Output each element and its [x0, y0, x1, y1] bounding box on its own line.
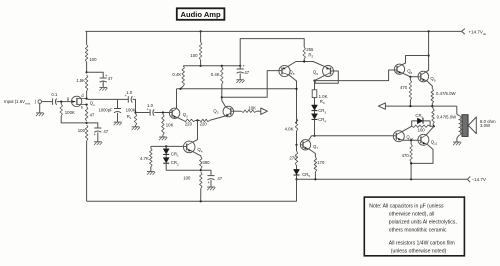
wire 4.7K lead — [150, 146, 152, 171]
speaker voice coil — [459, 116, 461, 136]
svg-text:10K: 10K — [166, 122, 174, 127]
junction rail 470b — [410, 178, 412, 180]
wire R1 to ground — [135, 126, 137, 127]
svg-text:47: 47 — [244, 70, 249, 75]
wire Q7 emitter — [309, 149, 316, 157]
ground R1 — [132, 126, 140, 128]
wire CR2 to emitter node — [166, 163, 201, 170]
svg-text:0.4K: 0.4K — [211, 72, 220, 77]
wire 0.4K left bottom join — [181, 86, 184, 89]
transistor Q6 — [323, 66, 334, 77]
junction Q7 base — [295, 144, 297, 146]
svg-text:390: 390 — [202, 160, 210, 165]
resistor 4.0K — [295, 119, 298, 132]
wire line D to Q10 base — [312, 135, 394, 137]
junction Q8 feed — [428, 54, 430, 56]
wire left branch from rail — [86, 31, 87, 44]
svg-text:1000pF: 1000pF — [99, 107, 113, 112]
svg-text:otherwise noted), all: otherwise noted), all — [389, 212, 435, 218]
diode CR3 — [312, 105, 318, 110]
wire 220b to Q3 emitter — [210, 116, 225, 120]
ground cap47a — [99, 86, 107, 88]
svg-text:170: 170 — [317, 160, 325, 165]
resistor 0.4K right — [221, 67, 224, 84]
ground 4.7K — [147, 171, 155, 173]
wire -14.7V rail — [297, 178, 468, 180]
wire Q6 base loop — [315, 71, 338, 83]
capacitor 0.1 — [52, 98, 54, 104]
wire 0.4K right to corner — [221, 84, 223, 101]
resistor 100 (mid feed) — [199, 42, 202, 60]
resistor R2 255 — [303, 47, 306, 59]
wire line A (Q2 col to Q5 col) — [177, 88, 297, 90]
wire mid rail y=65.8 — [183, 65, 240, 67]
off-page arrow (feedback in) — [261, 108, 268, 114]
junction output 470a — [409, 105, 411, 107]
wire CR5 to rail — [296, 175, 298, 179]
wire 4.0K to Q7 base — [296, 131, 298, 145]
capacitor 1.0a (coupling) — [127, 96, 129, 102]
wire box to Q10 collector — [402, 126, 412, 131]
resistor 100 (source, lower) — [85, 125, 88, 141]
wire R1 node to cap 1.0b — [136, 112, 150, 114]
junction Q4 emitter node — [200, 169, 202, 171]
junction rail CR5 — [295, 178, 297, 180]
diode CR5 — [294, 169, 300, 174]
svg-text:47: 47 — [108, 76, 113, 81]
svg-text:47: 47 — [90, 112, 95, 117]
wire node to cap 47a — [87, 72, 104, 77]
transistor Q11 — [418, 134, 429, 145]
junction line A right end — [295, 88, 297, 90]
transistor Q7 — [300, 140, 310, 150]
svg-text:220: 220 — [200, 121, 208, 126]
diode CR1 — [163, 149, 169, 154]
svg-text:0.47/5.0W: 0.47/5.0W — [436, 91, 457, 96]
wire Q9 emitter — [427, 81, 432, 89]
wire 100 mid bottom — [200, 60, 202, 66]
wire R2 feed — [240, 39, 304, 66]
wire Q4 emitter — [193, 152, 201, 157]
wire speaker feed — [457, 106, 459, 116]
svg-text:10K: 10K — [248, 105, 256, 110]
junction Q5Q6 emitters — [303, 60, 305, 62]
svg-text:100K: 100K — [65, 110, 75, 115]
wire tail down to Q4 collector — [192, 120, 197, 142]
junction line A left — [179, 88, 181, 90]
connector -14.7V — [467, 177, 470, 183]
wire bottom return run — [87, 179, 297, 201]
resistor 10K (Q2 base) — [162, 114, 165, 135]
resistor 100 (CR6 parallel) — [412, 125, 430, 127]
speaker frame — [462, 115, 468, 137]
ground cap47c — [207, 186, 215, 188]
junction Q10e Q11b — [410, 139, 412, 141]
transistor Q1 (JFET) — [71, 96, 81, 106]
transistor Q2 — [169, 108, 179, 118]
wire 10K to arrow — [257, 110, 261, 112]
wire Q7 collector join — [308, 136, 311, 141]
svg-text:(unless otherwise noted): (unless otherwise noted) — [391, 249, 447, 255]
capacitor 47 (2nd stage decouple) — [237, 68, 244, 70]
wire CR6 box right — [430, 121, 434, 126]
transistor Q8 — [394, 64, 404, 74]
svg-text:270: 270 — [289, 155, 297, 160]
wire CR4 to line D — [314, 119, 316, 135]
resistor 390 — [200, 157, 203, 169]
wire +14.7V top rail — [86, 30, 462, 32]
wire 1000pF to ground — [117, 113, 119, 122]
wire 100 to bottom run — [200, 189, 202, 202]
junction top rail / Q9 branch — [428, 30, 430, 32]
wire 170 to rail — [314, 172, 316, 179]
wire cap47b to ground — [97, 132, 99, 141]
junction mid rail / cap47 — [239, 65, 241, 67]
wire Q6 collector join — [315, 76, 325, 81]
diode CR4 — [312, 114, 318, 119]
wire Q5 collector down — [289, 75, 297, 124]
resistor 4.7K — [150, 148, 153, 167]
svg-text:s: s — [81, 105, 83, 110]
junction line B corner — [221, 96, 223, 98]
wire 0.47 upper to output — [431, 104, 433, 107]
svg-text:1.0: 1.0 — [147, 103, 154, 108]
wire Q2 emitter to 220a — [178, 118, 184, 121]
wire 390 to node — [200, 169, 202, 170]
svg-text:47: 47 — [103, 129, 108, 134]
resistor 100 (top-left) — [85, 45, 88, 63]
wire CR3 to CR4 — [314, 111, 316, 114]
wire Q11 collector — [426, 126, 434, 135]
wire 470b leads — [410, 140, 412, 179]
resistor 470 (Q11 base) — [410, 144, 413, 162]
junction CR6 node — [433, 125, 435, 127]
junction gate / 100K — [60, 101, 62, 103]
wire output line — [385, 105, 456, 107]
wire Q10 emitter to Q11 base — [403, 139, 418, 141]
junction emitters — [196, 119, 198, 121]
wire cap 0.1 to Q1 gate — [57, 101, 72, 103]
svg-text:0.1: 0.1 — [51, 92, 58, 97]
capacitor 47a (drain decouple) — [100, 77, 107, 79]
svg-text:100K: 100K — [126, 108, 136, 113]
svg-text:1.5K: 1.5K — [76, 78, 85, 83]
resistor 100 (Q4 leg) — [200, 172, 203, 189]
wire Q2 collector up — [176, 89, 178, 109]
resistor 1.5K — [85, 75, 88, 91]
wire line B to Q5 base — [222, 71, 279, 98]
off-page arrow (output) — [378, 103, 385, 109]
resistor 100K (gate) — [60, 104, 63, 116]
svg-text:100: 100 — [190, 53, 198, 58]
junction Q4 base / CR1 — [165, 145, 167, 147]
wire Q1 drain output run — [87, 98, 128, 101]
junction Q8e Q9b — [409, 76, 411, 78]
svg-text:470: 470 — [402, 153, 410, 158]
svg-text:255: 255 — [306, 47, 314, 52]
capacitor 1.0b (coupling) — [149, 109, 151, 115]
wire 470a to output line — [409, 77, 411, 106]
wire node to cap 47b — [87, 123, 98, 128]
junction source node — [86, 122, 88, 124]
diode CR6 — [417, 118, 422, 124]
wire Q3 base to 10K — [234, 110, 242, 112]
resistor 10K (feedback) — [241, 110, 256, 113]
wire drive line C — [315, 70, 395, 81]
wire 100K to source node — [61, 116, 86, 123]
wire source branch down to bottom run — [86, 141, 88, 201]
wire 100 mid top — [200, 31, 202, 42]
svg-text:100: 100 — [418, 128, 426, 133]
svg-text:47: 47 — [217, 176, 222, 181]
note box — [364, 197, 464, 256]
svg-text:0.4K: 0.4K — [172, 72, 181, 77]
wire cap1.0a to R1 node — [133, 99, 136, 112]
wire Q9 collector branch — [426, 31, 429, 72]
wire cap1.0b to Q2 base — [154, 112, 169, 114]
wire Q7 base bias down — [296, 145, 298, 151]
capacitor 47b (source bypass) — [94, 127, 101, 129]
wire cap47 to ground — [239, 73, 241, 79]
wire 1.5K to Q1 drain — [86, 91, 88, 99]
input terminal circle — [38, 100, 42, 104]
wire Q8 emitter to Q9 base — [403, 73, 418, 77]
resistor 0.47/5.0W lower — [432, 109, 435, 125]
title box "Audio Amp" — [177, 8, 225, 19]
junction drain decouple node — [86, 71, 88, 73]
resistor R1 100K — [134, 114, 137, 126]
wire Q4 base line — [151, 145, 184, 147]
junction mid rail / 0.4K right — [221, 65, 223, 67]
wire cap47 top feed — [239, 66, 241, 69]
ground cap47b — [94, 141, 102, 143]
resistor 220b — [200, 119, 210, 122]
wire R3 to CR3 — [314, 98, 316, 105]
wire 10K to ground — [162, 135, 164, 137]
junction bottom run Q4 leg — [200, 200, 202, 202]
svg-text:others monolithic ceramic: others monolithic ceramic — [389, 228, 447, 234]
transistor Q3 — [223, 106, 234, 117]
resistor 220a — [183, 119, 195, 122]
wire cap47a to ground — [102, 81, 104, 87]
svg-text:0.47/5.0W: 0.47/5.0W — [437, 115, 458, 120]
svg-text:1.0: 1.0 — [126, 90, 133, 95]
svg-text:4.7K: 4.7K — [140, 156, 149, 161]
svg-text:Note: All capacitors in µF (un: Note: All capacitors in µF (unless — [369, 204, 444, 210]
wire emitter trapezoid — [287, 62, 325, 67]
junction top rail / 100 mid — [200, 30, 202, 32]
wire base to CR1 — [165, 146, 167, 148]
ground speaker — [453, 141, 461, 143]
transistor Q10 — [393, 131, 404, 142]
transistor Q9 — [418, 71, 429, 82]
wire CR6 top line — [412, 121, 430, 126]
wire cap47c to ground — [210, 180, 212, 187]
capacitor 1000pF — [114, 108, 121, 110]
wire Q3 collector join — [222, 101, 226, 107]
junction Q2 base node — [162, 111, 164, 113]
speaker cone — [468, 117, 476, 134]
junction emitter loop — [410, 162, 412, 164]
junction R1 node — [134, 111, 136, 113]
svg-text:4.0K: 4.0K — [285, 127, 294, 132]
wire 270 to CR5 — [296, 166, 298, 170]
resistor 47 (source) — [85, 107, 88, 122]
svg-text:470: 470 — [400, 85, 408, 90]
junction line D — [313, 135, 315, 137]
wire input ground stub — [39, 103, 41, 112]
junction output 0.47 — [431, 105, 433, 107]
diode CR2 — [163, 158, 169, 163]
resistor 270 — [295, 151, 298, 166]
wire 1000pF tap — [117, 99, 119, 108]
svg-text:polarized units Al electrolyti: polarized units Al electrolytics, — [389, 220, 457, 226]
svg-text:100: 100 — [78, 128, 86, 133]
wire 220a to 220b — [196, 119, 200, 121]
ground 10K (Q2 base) — [159, 136, 167, 138]
resistor R3 1.0K (boxed) — [312, 90, 317, 98]
svg-text:3.0W: 3.0W — [480, 123, 491, 128]
wire 100 to node — [86, 62, 88, 72]
svg-text:All resistors 1/4W carbon film: All resistors 1/4W carbon film — [389, 241, 455, 247]
capacitor 47c — [208, 175, 215, 177]
wire input to cap 0.1 — [42, 101, 53, 103]
junction Q1 source — [86, 104, 88, 106]
transistor Q4 — [183, 141, 195, 153]
resistor 0.47/5.0W upper — [431, 89, 434, 104]
junction rail 170 — [314, 178, 316, 180]
resistor 470 (Q9 base) — [409, 80, 412, 100]
connector +14.7Vdc — [462, 29, 465, 35]
svg-text:220: 220 — [185, 121, 193, 126]
svg-text:Audio Amp: Audio Amp — [180, 10, 221, 19]
junction drive node — [313, 80, 315, 82]
svg-text:100: 100 — [183, 176, 191, 181]
wire node to cap 47c — [201, 170, 211, 175]
wire Q8 collector feed — [402, 56, 429, 65]
ground 1000pF — [114, 121, 122, 123]
resistor 0.4K left — [182, 66, 185, 86]
junction mid rail / 100 — [200, 65, 202, 67]
wire R2 to emitter node — [303, 59, 305, 62]
wire 0.47 lower leads — [432, 106, 434, 126]
junction Q1 drain — [86, 98, 88, 100]
ground cap47 2nd — [236, 79, 244, 81]
transistor Q5 — [279, 65, 290, 76]
wire speaker to ground — [457, 135, 459, 142]
resistor 170 — [314, 157, 317, 172]
wire 100K top lead — [60, 102, 62, 104]
wire CR1 to CR2 — [165, 154, 167, 157]
svg-text:100: 100 — [89, 57, 97, 62]
ground input — [36, 112, 44, 114]
svg-text:−14.7V: −14.7V — [472, 177, 486, 182]
wire drive node to R3 — [314, 81, 316, 90]
wire Q11 emitter loop — [411, 144, 433, 163]
